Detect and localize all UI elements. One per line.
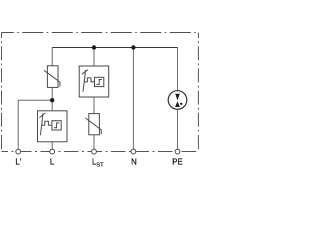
wire: gas discharge tube F3 to terminal PE bbox=[177, 109, 179, 149]
junction dot on bus at F1 branch bbox=[92, 45, 96, 49]
wire: bus to trigger spark gap F1 bbox=[93, 47, 95, 66]
gas discharge tube F3 (N-PE spark gap) bbox=[168, 91, 187, 110]
varistor MOV1 bbox=[44, 66, 60, 88]
svg-text:L: L bbox=[50, 158, 55, 167]
varistor MOV2 bbox=[85, 114, 101, 135]
device enclosure outline top edge (dash-dot) bbox=[2, 32, 199, 34]
triggered spark gap F1 (with trigger unit) bbox=[79, 66, 109, 97]
wire: spark gap F1 to varistor MOV2 bbox=[93, 97, 95, 114]
svg-text:N: N bbox=[131, 158, 137, 167]
terminal L' bbox=[16, 149, 21, 154]
device enclosure bottom edge / terminal line (dash-dot) bbox=[2, 151, 199, 153]
device enclosure outline left edge (dash-dot) bbox=[1, 33, 3, 152]
terminal PE bbox=[175, 149, 180, 154]
terminal LST bbox=[92, 149, 97, 154]
device enclosure outline right edge (dash-dot) bbox=[197, 33, 199, 152]
terminal N bbox=[131, 149, 136, 154]
wire: spark gap F2 to terminal L bbox=[51, 142, 53, 150]
svg-text:PE: PE bbox=[172, 158, 182, 167]
wire: bus to gas discharge tube F3 bbox=[177, 47, 179, 91]
terminal L bbox=[50, 149, 55, 154]
wire: bus to varistor MOV1 bbox=[51, 47, 53, 66]
junction node A (L' branch) bbox=[50, 98, 54, 102]
wire: MOV1 to spark gap F2 (through node A) bbox=[51, 87, 53, 110]
svg-text:LST: LST bbox=[92, 158, 104, 169]
triggered spark gap F2 (with trigger unit) bbox=[38, 111, 68, 142]
wire: bus to terminal N bbox=[132, 47, 134, 149]
top bus wire bbox=[52, 47, 177, 49]
svg-text:L′: L′ bbox=[15, 158, 21, 167]
wire: varistor MOV2 to terminal LST bbox=[93, 135, 95, 150]
junction dot on bus at N branch bbox=[131, 45, 135, 49]
wire: node A branch to terminal L' bbox=[18, 100, 52, 149]
